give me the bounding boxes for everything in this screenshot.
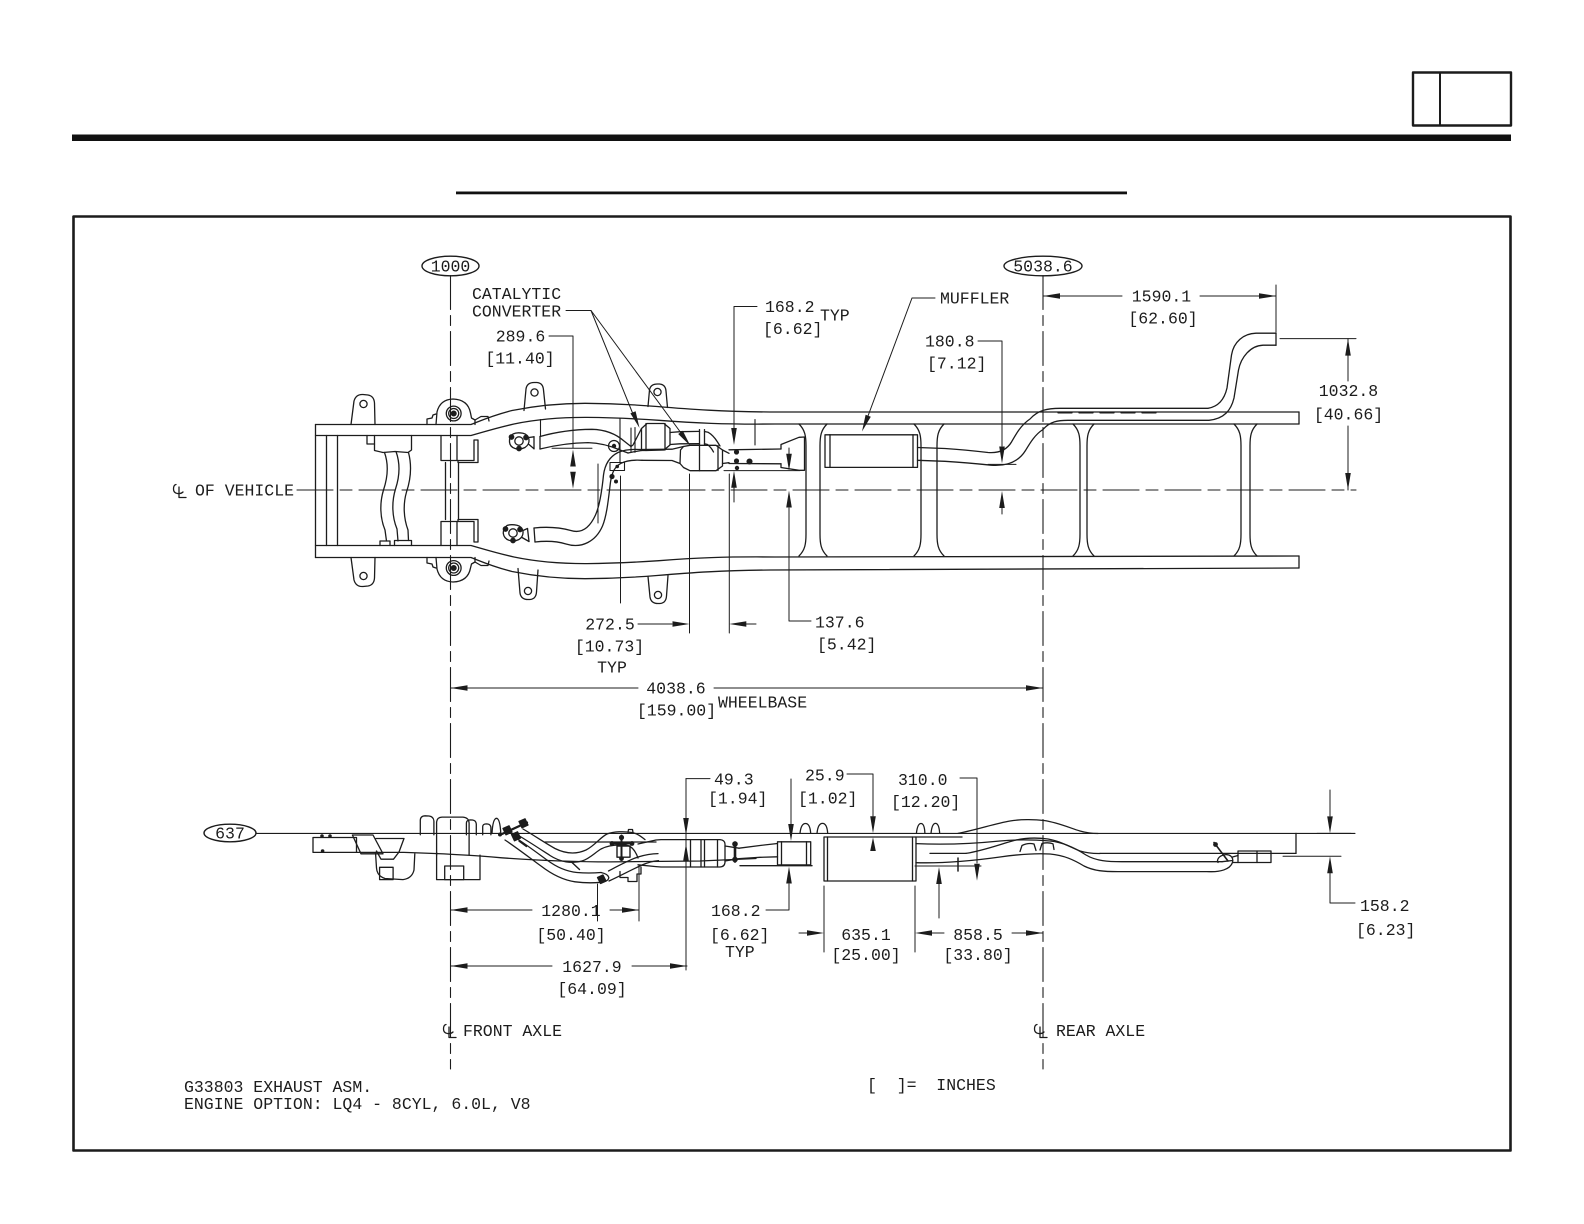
svg-text:289.6: 289.6 — [496, 328, 546, 347]
side view muffler — [824, 837, 916, 881]
svg-text:[25.00]: [25.00] — [831, 946, 900, 965]
svg-text:1627.9: 1627.9 — [562, 958, 621, 977]
svg-text:[50.40]: [50.40] — [536, 926, 605, 945]
side view frame horn — [313, 834, 357, 853]
svg-text:[11.40]: [11.40] — [485, 350, 554, 369]
label catalytic converter — [472, 285, 691, 446]
side view tailpipe — [916, 840, 1271, 872]
side view flex joint ticks — [519, 841, 580, 870]
crossmember 3 — [1073, 424, 1094, 556]
side view rail web line — [545, 841, 656, 843]
svg-text:[1.02]: [1.02] — [798, 790, 857, 809]
dimension 168.2 [6.62] TYP lower — [710, 867, 792, 963]
frame rail top (plan) — [316, 403, 1300, 424]
svg-text:4038.6: 4038.6 — [646, 680, 705, 699]
node front axle centerline — [450, 276, 452, 1070]
side view hanger foot bracket — [620, 867, 641, 882]
svg-text:158.2: 158.2 — [1360, 897, 1410, 916]
head pipe lower branch — [503, 449, 642, 545]
side view intermediate pipe — [739, 844, 778, 859]
node datum 637 line — [256, 832, 1355, 834]
drawing border frame — [74, 217, 1511, 1151]
frame rear end caps — [1298, 412, 1300, 424]
svg-text:637: 637 — [215, 825, 245, 844]
svg-text:TYP: TYP — [597, 659, 627, 678]
svg-text:180.8: 180.8 — [925, 333, 975, 352]
svg-text:[5.42]: [5.42] — [817, 636, 876, 655]
shackle bracket lower — [441, 520, 478, 546]
tailpipe (plan) — [918, 333, 1277, 465]
side view pipe clamp block — [740, 842, 812, 866]
svg-text:[64.09]: [64.09] — [557, 980, 626, 999]
balloon 637 — [204, 824, 256, 843]
svg-text:858.5: 858.5 — [953, 926, 1003, 945]
front crossmember tubes — [316, 425, 338, 558]
svg-text:TYP: TYP — [820, 307, 850, 326]
svg-text:TYP: TYP — [725, 943, 755, 962]
body mount tab front-top with hole — [351, 394, 375, 424]
svg-text:1280.1: 1280.1 — [541, 902, 601, 921]
svg-text:5038.6: 5038.6 — [1013, 258, 1072, 277]
dimension 635.1 [25.00] — [799, 886, 932, 965]
crossmember 2 — [914, 424, 944, 556]
svg-text:[33.80]: [33.80] — [943, 946, 1012, 965]
svg-text:CONVERTER: CONVERTER — [472, 303, 561, 322]
spring hanger dome bottom with pivot — [427, 558, 475, 583]
side view cat outlet clamp — [732, 841, 738, 862]
label centerline front axle — [444, 1022, 563, 1041]
front bumper bracket (wavy member) — [367, 436, 412, 546]
side view exhaust manifold flanges — [498, 819, 528, 841]
side view rail hanger bumps — [492, 818, 940, 833]
dimension 289.6 [11.40] — [485, 328, 592, 489]
body mount tab 2-bottom with hole — [648, 576, 668, 604]
dimension 1032.8 [40.66] — [1280, 339, 1383, 490]
svg-text:[40.66]: [40.66] — [1314, 406, 1383, 425]
muffler inlet cone (plan) — [781, 437, 805, 470]
svg-text:1590.1: 1590.1 — [1132, 288, 1192, 307]
catalytic converter C1 body — [642, 424, 671, 451]
svg-text:[10.73]: [10.73] — [575, 638, 644, 657]
exhaust manifold flange upper (plan) — [509, 433, 529, 451]
svg-text:168.2: 168.2 — [765, 298, 815, 317]
shackle bracket upper — [441, 436, 478, 463]
title underline — [456, 192, 1127, 195]
muffler M1 (plan) — [825, 435, 918, 468]
svg-text:310.0: 310.0 — [898, 771, 948, 790]
title block box top-right — [1413, 73, 1511, 126]
svg-text:FRONT AXLE: FRONT AXLE — [463, 1022, 562, 1041]
side view down pipe bank1 — [516, 829, 645, 862]
dimension 180.8 [7.12] — [925, 333, 1016, 515]
svg-text:REAR AXLE: REAR AXLE — [1056, 1022, 1145, 1041]
svg-text:137.6: 137.6 — [815, 614, 865, 633]
svg-text:OF VEHICLE: OF VEHICLE — [195, 482, 294, 501]
crossmember 4 — [1234, 424, 1257, 556]
svg-text:CATALYTIC: CATALYTIC — [472, 285, 561, 304]
svg-text:49.3: 49.3 — [714, 771, 754, 790]
side view rear frame rail — [916, 833, 1296, 853]
head pipe upper branch — [529, 429, 631, 453]
crossmember 1 — [799, 424, 827, 556]
dimension 1627.9 [64.09] — [451, 958, 688, 999]
svg-text:[62.60]: [62.60] — [1128, 310, 1197, 329]
label centerline of vehicle — [174, 482, 295, 501]
node vehicle centerline — [297, 489, 1356, 491]
side view hanger below rail — [957, 858, 959, 871]
svg-text:[6.62]: [6.62] — [763, 320, 822, 339]
side view cab mount tower — [420, 816, 491, 880]
svg-text:168.2: 168.2 — [711, 902, 761, 921]
svg-text:[ ]= INCHES: [ ]= INCHES — [867, 1076, 996, 1095]
svg-text:[12.20]: [12.20] — [891, 793, 960, 812]
svg-text:1032.8: 1032.8 — [1319, 382, 1378, 401]
dimension 49.3 [1.94] — [683, 771, 767, 971]
body mount tab mid-bottom with hole — [518, 569, 538, 600]
body mount tab 2-top with hole — [648, 384, 668, 408]
catalytic converter C2 body — [680, 445, 729, 470]
collector into C2 — [640, 447, 684, 464]
C2 outlet pipe — [729, 449, 781, 464]
dimension 25.9 [1.02] — [788, 767, 876, 852]
dimension 1590.1 [62.60] — [1043, 285, 1276, 332]
side view rail lower edge — [357, 852, 757, 862]
pipe top nub — [628, 830, 633, 833]
svg-text:ENGINE OPTION: LQ4 - 8CYL, 6.0: ENGINE OPTION: LQ4 - 8CYL, 6.0L, V8 — [184, 1095, 531, 1114]
spring hanger dome top with pivot — [427, 399, 475, 425]
svg-text:272.5: 272.5 — [585, 616, 635, 635]
side view hanger clamp — [610, 835, 635, 861]
balloon 1000 — [422, 256, 479, 276]
body mount tab front-bottom with hole — [351, 558, 375, 587]
svg-text:WHEELBASE: WHEELBASE — [718, 694, 807, 713]
node rear axle centerline — [1042, 276, 1044, 1070]
shackle link rods — [446, 463, 459, 520]
side view down pipe bank2 — [505, 836, 659, 883]
svg-text:635.1: 635.1 — [841, 926, 891, 945]
dimension 1280.1 [50.40] — [451, 866, 640, 945]
svg-text:[6.23]: [6.23] — [1356, 921, 1415, 940]
dimension 858.5 [33.80] — [932, 926, 1043, 965]
dimension 137.6 [5.42] — [786, 448, 876, 655]
catalytic converter C1 inlet cone — [628, 429, 642, 454]
svg-text:1000: 1000 — [431, 258, 471, 277]
side view rear rail kick-up over axle — [958, 820, 1100, 854]
svg-text:[7.12]: [7.12] — [927, 355, 986, 374]
body mount tab mid-top with hole — [524, 383, 546, 411]
C1 outlet pipe with clamp — [670, 430, 720, 452]
balloon 5038.6 — [1004, 256, 1082, 276]
label muffler — [862, 290, 1009, 432]
side view catalytic converter — [638, 840, 739, 867]
side view pipe belly cap — [601, 873, 609, 883]
thick header rule — [72, 135, 1511, 142]
side view belly hanger rod extension — [597, 884, 599, 921]
dimension 4038.6 [159.00] WHEELBASE — [451, 680, 1044, 721]
hanger rod details (plan) — [541, 419, 756, 604]
dimension 272.5 [10.73] TYP — [575, 474, 756, 678]
side view axle bump bracket — [1020, 843, 1054, 852]
dimension 158.2 [6.23] — [1283, 790, 1415, 940]
svg-text:[1.94]: [1.94] — [708, 790, 767, 809]
svg-text:[159.00]: [159.00] — [637, 702, 716, 721]
dimension 168.2 TYP [6.62] upper — [724, 298, 850, 502]
frame rail bottom (plan) — [316, 558, 1300, 579]
side view front brackets — [352, 835, 414, 880]
dimension 310.0 [12.20] — [891, 771, 981, 918]
svg-text:25.9: 25.9 — [805, 767, 845, 786]
rail step bracket right of dome — [475, 417, 489, 422]
svg-text:MUFFLER: MUFFLER — [940, 290, 1009, 309]
label centerline rear axle — [1035, 1022, 1146, 1041]
